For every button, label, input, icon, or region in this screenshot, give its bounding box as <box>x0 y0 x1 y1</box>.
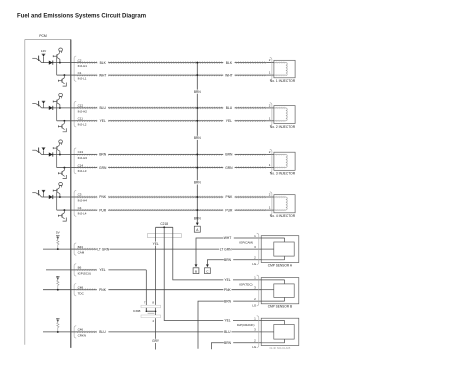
wire IGP(SCU) YEL out of PCM <box>71 269 147 271</box>
svg-text:PNK: PNK <box>99 195 107 199</box>
svg-text:BLU: BLU <box>99 330 106 334</box>
injector 4 connector bracket <box>270 192 272 215</box>
svg-text:PUR: PUR <box>99 208 107 212</box>
svg-text:No. 1 INJECTOR: No. 1 INJECTOR <box>270 79 296 83</box>
bus colour label BRN <box>193 136 201 140</box>
svg-text:C218: C218 <box>160 222 168 226</box>
svg-text:IGP(TDC): IGP(TDC) <box>239 282 252 286</box>
colour label YEL (C218 leg) <box>152 242 160 246</box>
injector unit No. 3 INJECTOR <box>274 152 295 170</box>
sensor pin numbers (CMP SENSOR B) <box>254 276 256 301</box>
PCM connector bracket B43 <box>74 243 76 255</box>
wire from Q4B to low-side line <box>56 192 58 210</box>
arrow into connector B <box>195 264 198 267</box>
junction bus/INJ-H1 <box>196 62 198 64</box>
transistor Q4C (low-side) <box>58 210 66 221</box>
svg-text:BLU: BLU <box>226 106 233 110</box>
joint connector C218 <box>147 222 181 238</box>
wire CAM inside PCM <box>43 248 71 250</box>
wire CRKN BLU out of PCM <box>71 331 261 333</box>
sensor connector bracket <box>257 316 259 348</box>
wire INJ-H2 inside PCM <box>42 107 71 109</box>
transistor Q2B and supply coil (group 2) <box>53 93 62 108</box>
diode D2 <box>49 106 53 110</box>
wire INJ-H2 BLU to injector <box>71 107 274 109</box>
PCM box <box>25 40 71 348</box>
PCM connector bracket C46 <box>74 326 76 338</box>
wire IGP(SCU) YEL down to C308 <box>145 270 147 311</box>
junction on INJ-H3 <box>59 154 61 156</box>
transistor Q4B and supply coil (group 4) <box>53 182 62 197</box>
arrow into connector A <box>196 223 199 226</box>
svg-text:BRN: BRN <box>225 153 233 157</box>
wire INJ-L2 YEL to injector <box>71 120 274 122</box>
svg-text:INJ-H3: INJ-H3 <box>78 156 88 160</box>
wire INJ-L4 PUR to injector <box>71 209 274 211</box>
junction on INJ-L1 <box>63 74 65 76</box>
junction bus/INJ-H3 <box>196 154 198 156</box>
svg-text:BRN: BRN <box>194 90 201 94</box>
svg-text:YEL: YEL <box>224 278 230 282</box>
svg-text:BLU: BLU <box>99 106 106 110</box>
svg-text:CMP SENSOR B: CMP SENSOR B <box>268 305 292 309</box>
junction on INJ-L2 <box>63 120 65 122</box>
svg-text:No. 4 INJECTOR: No. 4 INJECTOR <box>270 214 296 218</box>
colour label YEL (CKP pin1) <box>224 318 233 322</box>
junction bus/INJ-L3 <box>196 167 198 169</box>
colour label BRN (CMP A pin2) <box>224 258 233 262</box>
svg-text:BRN: BRN <box>194 136 201 140</box>
svg-text:TDC: TDC <box>78 291 85 295</box>
svg-text:GRN: GRN <box>99 166 107 170</box>
5V pull-up on TDC <box>56 276 60 289</box>
colour label GRY <box>151 339 160 343</box>
junction bus/INJ-L2 <box>196 120 198 122</box>
svg-text:YEL: YEL <box>100 119 106 123</box>
wire INJ-L1 inside PCM <box>57 74 71 76</box>
svg-text:CRKN: CRKN <box>78 334 87 338</box>
junction bus/INJ-H2 <box>196 107 198 109</box>
12V supply arrow (group 2) <box>42 101 46 108</box>
sensor connector bracket <box>257 275 259 306</box>
off-page connector A <box>194 226 200 232</box>
wire from Q1B to low-side line <box>56 58 58 75</box>
svg-text:BRN: BRN <box>194 216 201 220</box>
wire INJ-L1 WHT to injector <box>71 74 274 76</box>
PCM connector bracket group 1 <box>74 56 76 81</box>
transistor Q1B and supply coil (group 1) <box>53 48 62 63</box>
wire C218 centre leg to CKP sensor (YEL) <box>164 227 223 320</box>
wire BRN from CMP sensor B (LG) <box>198 301 261 349</box>
svg-text:BRN: BRN <box>194 181 201 185</box>
diode D4 <box>49 195 53 199</box>
svg-text:BRN: BRN <box>224 258 232 262</box>
svg-text:No. 3 INJECTOR: No. 3 INJECTOR <box>270 172 296 176</box>
svg-text:GRY: GRY <box>152 339 160 343</box>
svg-text:INJ-L2: INJ-L2 <box>78 122 87 126</box>
condenser C308 <box>141 305 161 317</box>
injector 1 connector bracket <box>270 57 272 80</box>
wire TDC PNK out of PCM <box>71 289 261 291</box>
svg-text:WHT: WHT <box>224 236 232 240</box>
BRN bus wire (injector common) <box>196 63 198 223</box>
svg-text:YEL: YEL <box>226 119 232 123</box>
junction on INJ-L3 <box>63 167 65 169</box>
wire INJ-H3 inside PCM <box>42 154 71 156</box>
12V supply arrow (group 3) <box>42 148 46 155</box>
PCM connector bracket group 4 <box>74 190 76 216</box>
svg-text:C308: C308 <box>133 309 141 313</box>
wire INJ-L2 inside PCM <box>57 120 71 122</box>
injector 2 connector bracket <box>270 103 272 126</box>
sensor connector bracket <box>257 233 259 264</box>
injector unit No. 2 INJECTOR <box>274 106 295 124</box>
transistor Q3C (low-side) <box>58 168 66 179</box>
5V pull-up on CAM <box>56 231 61 249</box>
bus colour label BRN <box>193 90 201 94</box>
sensor unit CMP SENSOR A <box>261 236 299 263</box>
junction on INJ-H1 <box>59 62 61 64</box>
wire INJ-L3 inside PCM <box>57 167 71 169</box>
svg-text:YEL: YEL <box>99 268 105 272</box>
svg-text:INJ-H2: INJ-H2 <box>78 110 88 114</box>
svg-text:BRN: BRN <box>224 299 232 303</box>
wire TDC inside PCM <box>43 289 71 291</box>
svg-text:BRN: BRN <box>99 153 107 157</box>
svg-text:IGP(CAM): IGP(CAM) <box>239 240 253 244</box>
junction on CRKN <box>57 331 59 333</box>
svg-text:IGP(SCU): IGP(SCU) <box>78 272 92 276</box>
wire INJ-H4 PNK to injector <box>71 196 274 198</box>
arrow into connector C <box>206 264 209 267</box>
junction on INJ-H2 <box>59 107 61 109</box>
12V supply arrow (group 4) <box>42 190 46 197</box>
svg-text:PCM: PCM <box>39 34 47 38</box>
svg-text:Fuel and Emissions Systems Cir: Fuel and Emissions Systems Circuit Diagr… <box>17 13 146 19</box>
wire IGP(SCU) inside PCM <box>46 269 71 271</box>
colour label WHT (CMP A pin1) <box>223 236 233 240</box>
svg-text:INJ-L1: INJ-L1 <box>78 77 87 81</box>
wire INJ-H4 inside PCM <box>42 196 71 198</box>
junction on INJ-H4 <box>59 196 61 198</box>
svg-text:INJ-L3: INJ-L3 <box>78 169 87 173</box>
svg-text:BLK: BLK <box>226 61 233 65</box>
colour label BRN (CMP B pin2) <box>224 299 233 303</box>
wire GRY shield drain below C308 <box>155 318 157 349</box>
svg-text:PUR: PUR <box>225 208 233 212</box>
junction at C218 <box>163 226 165 228</box>
svg-text:GRN: GRN <box>225 166 233 170</box>
wire from Q2B to low-side line <box>56 103 58 121</box>
wire YEL to CMP sensor B pin 1 (cont.) <box>233 279 261 281</box>
junction on CAM <box>57 248 59 250</box>
svg-text:BLK: BLK <box>100 61 107 65</box>
svg-text:BRN: BRN <box>224 341 232 345</box>
transistor Q2A (high-side drive) <box>32 101 41 108</box>
wire BRN from CKP sensor (LG) <box>211 343 261 349</box>
transistor Q1C (low-side) <box>58 75 66 86</box>
svg-text:LT GRN: LT GRN <box>220 247 232 251</box>
junction bus/INJ-H4 <box>196 196 198 198</box>
junction on INJ-L4 <box>63 209 65 211</box>
svg-text:YEL: YEL <box>153 242 159 246</box>
svg-text:02-4K S04-02-A05: 02-4K S04-02-A05 <box>270 347 291 350</box>
wire INJ-H1 BLK to injector <box>71 61 274 63</box>
junction on TDC <box>57 289 59 291</box>
sensor unit CMP SENSOR B <box>261 278 299 304</box>
sensor pin numbers (CKP SENSOR) <box>254 316 256 342</box>
transistor Q3B and supply coil (group 3) <box>53 140 62 155</box>
wire LG BRN from CMP sensor A to C <box>207 260 261 265</box>
junction bus/INJ-L1 <box>196 74 198 76</box>
transistor Q1A (high-side drive) <box>32 56 41 63</box>
PCM connector bracket group 2 <box>74 101 76 127</box>
svg-text:CMP SENSOR A: CMP SENSOR A <box>268 263 293 267</box>
diode D3 <box>49 152 53 156</box>
svg-text:BLU: BLU <box>224 330 231 334</box>
svg-text:CAM: CAM <box>78 251 85 255</box>
wire INJ-H1 inside PCM <box>42 62 71 64</box>
off-page connector B <box>193 268 199 274</box>
transistor Q4A (high-side drive) <box>32 190 41 197</box>
wire CAM LT GRN out of PCM <box>71 248 261 250</box>
diode D1 <box>49 61 53 65</box>
colour label BRN (CKP pin2) <box>224 341 233 345</box>
wire INJ-L3 GRN to injector <box>71 166 274 168</box>
svg-text:LG: LG <box>252 345 257 349</box>
svg-text:No. 2 INJECTOR: No. 2 INJECTOR <box>270 125 296 129</box>
wire IGP(CAM) WHT from CMP sensor A to B <box>196 238 261 264</box>
5V pull-up on CRKN <box>56 319 60 332</box>
PCM connector bracket group 3 <box>74 148 76 174</box>
off-page connector C <box>205 268 211 274</box>
junction bus/INJ-L4 <box>196 209 198 211</box>
svg-text:WHT: WHT <box>99 73 107 77</box>
transistor Q2C (low-side) <box>58 121 66 132</box>
sensor unit CKP SENSOR <box>261 318 299 345</box>
sensor pin numbers (CMP SENSOR A) <box>254 234 256 260</box>
svg-text:IGP(CRANK): IGP(CRANK) <box>237 323 255 327</box>
wire INJ-H3 BRN to injector <box>71 153 274 155</box>
injector unit No. 1 INJECTOR <box>274 60 295 78</box>
wire CRKN inside PCM <box>43 331 71 333</box>
svg-text:12V: 12V <box>41 49 47 53</box>
svg-text:PNK: PNK <box>224 288 232 292</box>
svg-text:INJ-H4: INJ-H4 <box>78 199 88 203</box>
bus colour label BRN <box>193 180 201 184</box>
svg-text:PNK: PNK <box>226 195 234 199</box>
svg-text:YEL: YEL <box>224 319 230 323</box>
svg-text:B: B <box>195 270 197 274</box>
wire C218 left leg (YEL) to C308 <box>155 227 157 305</box>
wire C218 right leg to CMP sensor B (YEL) <box>173 227 224 280</box>
PCM connector bracket C48 <box>74 284 76 296</box>
wire from Q3B to low-side line <box>56 150 58 168</box>
wire INJ-L4 inside PCM <box>57 209 71 211</box>
svg-text:INJ-L4: INJ-L4 <box>78 212 87 216</box>
svg-text:LG: LG <box>252 303 257 307</box>
svg-text:LG: LG <box>252 262 257 266</box>
12V supply arrow (group 1) <box>41 49 47 63</box>
svg-text:INJ-H1: INJ-H1 <box>78 64 88 68</box>
PCM connector bracket B6 <box>74 264 76 276</box>
injector 3 connector bracket <box>270 149 272 172</box>
colour label YEL (CMP B pin1) <box>224 278 233 282</box>
svg-text:PNK: PNK <box>99 288 107 292</box>
transistor Q3A (high-side drive) <box>32 148 41 155</box>
wire YEL to CKP sensor pin 1 (cont.) <box>233 320 261 322</box>
svg-text:WHT: WHT <box>225 73 233 77</box>
svg-text:LT GRN: LT GRN <box>97 247 109 251</box>
injector unit No. 4 INJECTOR <box>274 195 295 213</box>
